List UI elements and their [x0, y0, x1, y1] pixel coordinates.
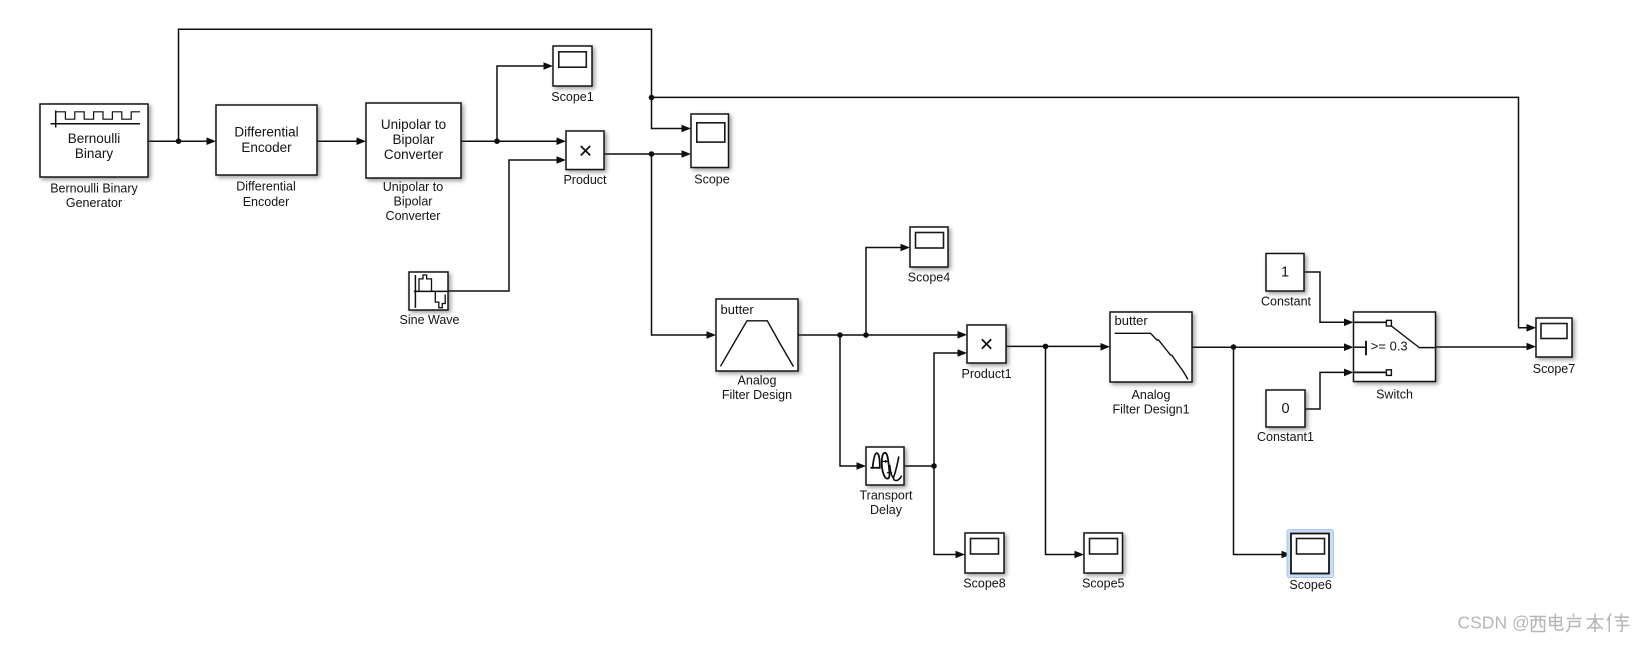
junction B on filter output — [863, 332, 869, 338]
svg-text:Switch: Switch — [1376, 388, 1413, 402]
junction on top line at Scope column — [649, 95, 655, 101]
svg-text:Converter: Converter — [384, 147, 444, 162]
svg-text:0: 0 — [1281, 401, 1289, 417]
svg-text:Differential: Differential — [234, 125, 298, 140]
block Analog Filter Design (bandpass) — [716, 299, 798, 371]
block Transport Delay — [866, 447, 904, 485]
svg-text:Bernoulli: Bernoulli — [68, 131, 121, 146]
block Switch — [1354, 312, 1436, 382]
svg-text:Encoder: Encoder — [243, 195, 290, 209]
scope Scope8 — [965, 533, 1004, 573]
label Analog Filter Design — [722, 374, 792, 403]
wire Analog Filter Design out to Product1 input 1 — [798, 331, 967, 339]
label Bernoulli Binary Generator — [50, 182, 138, 210]
svg-text:Encoder: Encoder — [241, 140, 292, 155]
wire junction A down to Transport Delay — [840, 335, 866, 470]
label Sine Wave — [400, 313, 460, 327]
wire feedback from Bernoulli junction to Scope input 1 — [179, 29, 692, 141]
svg-text:1: 1 — [1281, 264, 1289, 280]
svg-text:Bipolar: Bipolar — [392, 132, 435, 147]
scope Scope5 — [1084, 533, 1123, 573]
junction before Product — [494, 138, 500, 144]
svg-text:Scope4: Scope4 — [908, 271, 950, 285]
block Constant1 (value 0) — [1266, 390, 1305, 427]
svg-text:Scope: Scope — [694, 172, 729, 186]
wire Transport Delay out to Product1 input 2 — [904, 349, 967, 466]
svg-text:Transport: Transport — [859, 489, 913, 503]
svg-text:Filter Design: Filter Design — [722, 388, 792, 402]
svg-text:Bernoulli Binary: Bernoulli Binary — [50, 182, 138, 196]
label Differential Encoder — [236, 179, 296, 209]
watermark CSDN — [1458, 613, 1530, 633]
wire branch up to Scope1 — [497, 62, 553, 141]
wire Constant to Switch input 1 — [1304, 272, 1354, 326]
wire Differential Encoder to Unipolar converter — [317, 137, 366, 145]
svg-text:butter: butter — [1115, 313, 1149, 328]
svg-text:Generator: Generator — [66, 196, 122, 210]
label Product1 — [961, 367, 1011, 381]
junction on Transport Delay output — [931, 463, 937, 469]
wire down to Scope8 — [934, 466, 965, 558]
scope Scope7 — [1536, 318, 1572, 357]
svg-text:Analog: Analog — [1132, 388, 1171, 402]
scope Scope1 — [553, 46, 592, 86]
wire down to Scope5 — [1046, 346, 1085, 558]
svg-text:Filter Design1: Filter Design1 — [1112, 402, 1189, 416]
junction on Product1 output — [1043, 344, 1049, 350]
wire Bernoulli out to Differential Encoder — [148, 137, 216, 145]
scope Scope — [691, 114, 729, 168]
label Scope7 — [1533, 362, 1575, 376]
label Scope — [694, 172, 729, 186]
block Differential Encoder — [216, 105, 317, 175]
block Analog Filter Design1 (lowpass) — [1110, 312, 1192, 382]
wire Product out to Scope input 2 — [604, 150, 691, 158]
svg-text:Bipolar: Bipolar — [394, 194, 433, 208]
svg-text:Scope6: Scope6 — [1289, 578, 1331, 592]
svg-text:Sine Wave: Sine Wave — [400, 313, 460, 327]
wire Sine Wave to Product input 2 — [448, 156, 566, 291]
label Scope4 — [908, 271, 950, 285]
block Unipolar to Bipolar Converter — [366, 103, 461, 178]
label Scope5 — [1082, 576, 1124, 590]
wire long top line to Scope7 input 1 — [652, 97, 1537, 331]
label Constant — [1261, 294, 1312, 308]
junction after Bernoulli — [176, 138, 182, 144]
svg-text:CSDN @: CSDN @ — [1458, 613, 1530, 633]
svg-text:Constant1: Constant1 — [1257, 430, 1314, 444]
junction on Product output — [649, 151, 655, 157]
wire Switch out to Scope7 input 2 — [1436, 343, 1537, 351]
wire Constant1 to Switch input 3 — [1305, 369, 1354, 409]
wire down to Scope6 — [1234, 347, 1292, 558]
junction on filter1 output — [1231, 344, 1237, 350]
scope Scope4 — [910, 227, 948, 267]
svg-text:Product: Product — [563, 173, 607, 187]
block Product1 — [967, 325, 1006, 363]
label Scope8 — [963, 576, 1005, 590]
wire Product1 out to Analog Filter Design1 — [1006, 343, 1110, 351]
svg-text:Converter: Converter — [386, 209, 441, 223]
selection highlight for Scope6 — [1287, 530, 1334, 578]
label Scope6 — [1289, 578, 1331, 592]
svg-text:Scope8: Scope8 — [963, 576, 1005, 590]
label Scope1 — [551, 90, 593, 104]
wire Product junction down to Analog Filter Design — [652, 154, 717, 339]
svg-text:Analog: Analog — [738, 374, 777, 388]
svg-text:Scope1: Scope1 — [551, 90, 593, 104]
svg-text:>= 0.3: >= 0.3 — [1371, 338, 1408, 353]
svg-text:Unipolar to: Unipolar to — [383, 180, 443, 194]
block Sine Wave — [409, 272, 448, 310]
block Bernoulli Binary Generator — [40, 104, 148, 177]
wire Analog Filter Design1 out to Switch input 2 — [1192, 343, 1354, 351]
label Constant1 — [1257, 430, 1314, 444]
label Analog Filter Design1 — [1112, 388, 1189, 417]
wire junction B up to Scope4 — [866, 244, 910, 335]
svg-text:Product1: Product1 — [961, 367, 1011, 381]
svg-text:butter: butter — [721, 302, 755, 317]
svg-text:Scope5: Scope5 — [1082, 576, 1124, 590]
svg-text:Scope7: Scope7 — [1533, 362, 1575, 376]
watermark chinese characters — [1530, 614, 1630, 633]
svg-text:Unipolar to: Unipolar to — [381, 117, 446, 132]
label Switch — [1376, 388, 1413, 402]
svg-text:Differential: Differential — [236, 179, 296, 193]
svg-text:Constant: Constant — [1261, 294, 1312, 308]
scope Scope6 (selected) — [1291, 534, 1329, 574]
wire Unipolar converter to Product input 1 — [461, 137, 566, 145]
svg-text:Binary: Binary — [75, 146, 114, 161]
label Unipolar to Bipolar Converter — [383, 180, 443, 223]
block Constant (value 1) — [1266, 254, 1304, 292]
label Transport Delay — [859, 489, 913, 518]
block Product — [566, 131, 604, 170]
junction A on filter output — [837, 332, 843, 338]
svg-text:Delay: Delay — [870, 503, 903, 517]
label Product — [563, 173, 607, 187]
